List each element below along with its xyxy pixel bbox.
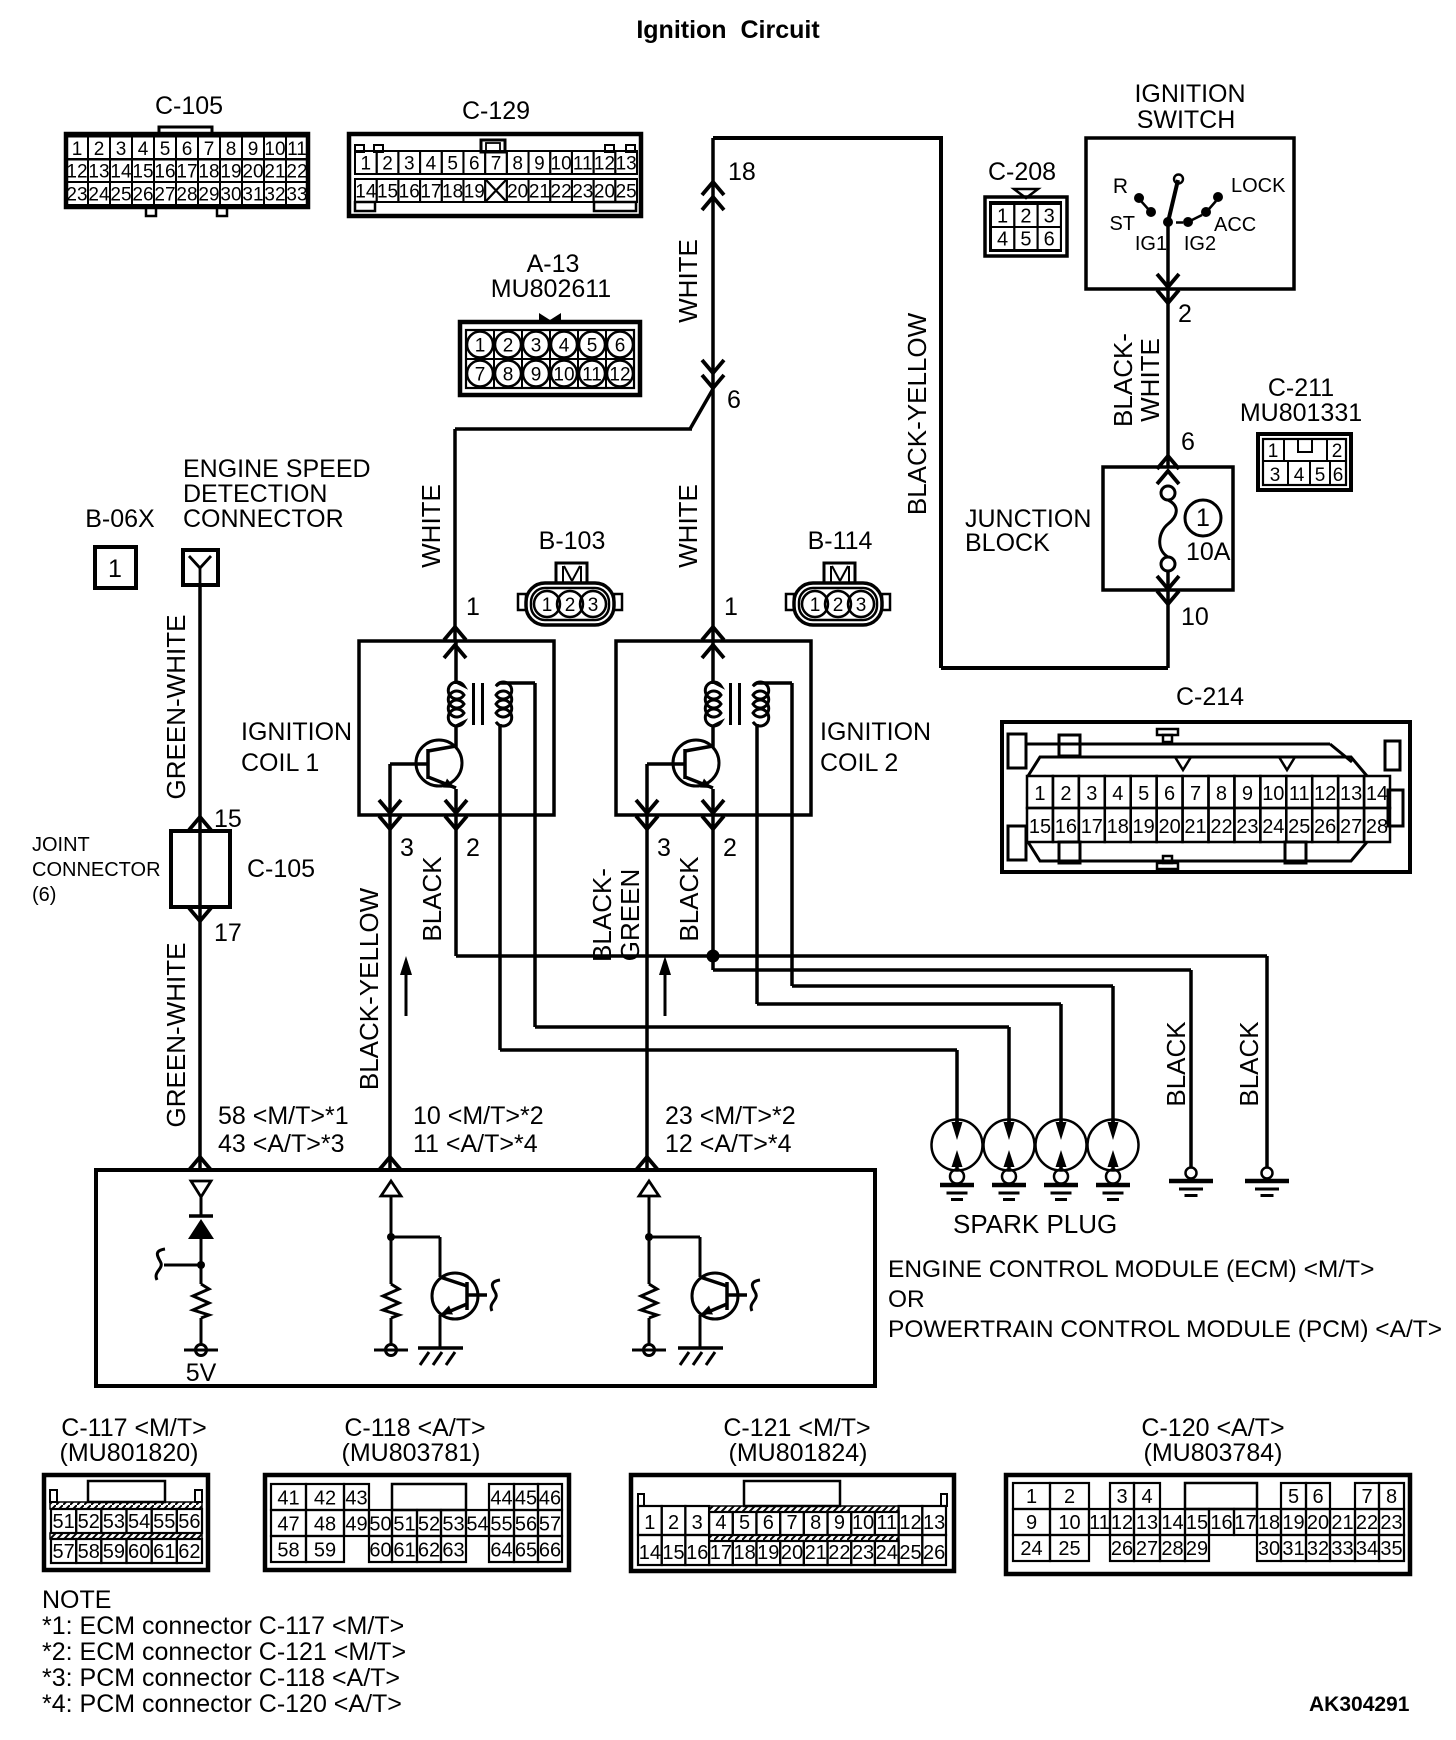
ECM box xyxy=(96,1170,875,1386)
svg-text:6: 6 xyxy=(182,139,193,160)
svg-text:12: 12 xyxy=(609,365,630,386)
svg-text:WHITE: WHITE xyxy=(1135,338,1165,422)
svg-text:7: 7 xyxy=(1361,1486,1372,1508)
svg-text:2: 2 xyxy=(1060,783,1071,805)
svg-text:53: 53 xyxy=(442,1514,464,1536)
ignition switch xyxy=(1086,80,1294,289)
svg-text:12: 12 xyxy=(1314,783,1336,805)
svg-text:16: 16 xyxy=(686,1542,708,1564)
svg-text:5: 5 xyxy=(1020,229,1031,251)
svg-text:4: 4 xyxy=(426,154,437,175)
svg-text:4: 4 xyxy=(997,229,1008,251)
svg-text:ENGINE SPEED: ENGINE SPEED xyxy=(183,455,371,483)
svg-text:61: 61 xyxy=(393,1540,415,1562)
connector C-105 (33-pin) xyxy=(66,92,308,216)
svg-text:13: 13 xyxy=(1340,783,1362,805)
svg-text:13: 13 xyxy=(1136,1512,1158,1534)
svg-text:25: 25 xyxy=(1058,1538,1080,1560)
svg-text:1: 1 xyxy=(1196,504,1210,532)
svg-text:5: 5 xyxy=(447,154,458,175)
svg-text:26: 26 xyxy=(1111,1538,1133,1560)
svg-text:DETECTION: DETECTION xyxy=(183,480,327,508)
svg-text:1: 1 xyxy=(361,154,372,175)
svg-text:3: 3 xyxy=(856,595,867,616)
svg-text:54: 54 xyxy=(128,1511,150,1533)
svg-text:31: 31 xyxy=(1282,1538,1304,1560)
wire: junction block pin 10 down xyxy=(1157,571,1209,668)
svg-text:5: 5 xyxy=(739,1512,750,1534)
ECM driver circuit 1: resistor R2, transistor Q3 xyxy=(374,1181,500,1365)
svg-text:21: 21 xyxy=(529,182,550,203)
svg-text:2: 2 xyxy=(1064,1486,1075,1508)
ECM pin label 10/11 xyxy=(413,1102,544,1158)
wire: coil 1 secondary to spark plug 1 xyxy=(500,724,957,1131)
svg-text:10A: 10A xyxy=(1186,538,1231,566)
svg-text:15: 15 xyxy=(214,805,242,833)
svg-text:6: 6 xyxy=(1312,1486,1323,1508)
svg-text:6: 6 xyxy=(615,336,626,357)
svg-text:BLACK: BLACK xyxy=(1161,1021,1191,1107)
svg-text:B-06X: B-06X xyxy=(85,505,155,533)
svg-text:6: 6 xyxy=(763,1512,774,1534)
svg-text:C-121 <M/T>: C-121 <M/T> xyxy=(723,1414,870,1442)
svg-text:8: 8 xyxy=(503,365,514,386)
svg-text:6: 6 xyxy=(1164,783,1175,805)
svg-text:32: 32 xyxy=(264,185,285,206)
svg-text:23: 23 xyxy=(852,1542,874,1564)
engine speed detection connector xyxy=(183,455,371,585)
wire BLACK: coil 2 pin 2 to ground xyxy=(674,843,1213,1196)
svg-text:CONNECTOR: CONNECTOR xyxy=(32,859,161,881)
svg-text:18: 18 xyxy=(1258,1512,1280,1534)
svg-text:(MU803781): (MU803781) xyxy=(342,1439,481,1467)
svg-text:C-118 <A/T>: C-118 <A/T> xyxy=(344,1414,485,1442)
svg-text:23: 23 xyxy=(1236,816,1258,838)
label SPARK PLUG xyxy=(953,1209,1117,1239)
svg-text:48: 48 xyxy=(314,1514,336,1536)
svg-text:7: 7 xyxy=(475,365,486,386)
svg-text:28: 28 xyxy=(1161,1538,1183,1560)
svg-text:25: 25 xyxy=(110,185,131,206)
svg-text:18: 18 xyxy=(198,162,219,183)
svg-text:(6): (6) xyxy=(32,884,56,906)
svg-text:2: 2 xyxy=(382,154,393,175)
svg-text:BLACK-: BLACK- xyxy=(1108,333,1138,427)
svg-text:19: 19 xyxy=(757,1542,779,1564)
svg-text:18: 18 xyxy=(733,1542,755,1564)
svg-text:1: 1 xyxy=(644,1512,655,1534)
svg-text:12 <A/T>*4: 12 <A/T>*4 xyxy=(665,1130,792,1158)
svg-text:7: 7 xyxy=(204,139,215,160)
svg-text:52: 52 xyxy=(78,1511,100,1533)
svg-text:19: 19 xyxy=(1133,816,1155,838)
wire: coil 1 secondary (top) to spark plug 2 xyxy=(535,683,1009,1131)
svg-text:23: 23 xyxy=(572,182,593,203)
svg-text:5: 5 xyxy=(1138,783,1149,805)
svg-text:34: 34 xyxy=(1356,1538,1378,1560)
svg-text:12: 12 xyxy=(899,1512,921,1534)
svg-text:52: 52 xyxy=(418,1514,440,1536)
svg-text:2: 2 xyxy=(1178,300,1192,328)
spark plug 4 with ground xyxy=(1088,1120,1139,1200)
connector C-129 (25-pin) xyxy=(349,97,641,216)
svg-text:8: 8 xyxy=(810,1512,821,1534)
svg-text:4: 4 xyxy=(1294,465,1305,486)
svg-text:46: 46 xyxy=(539,1488,561,1510)
svg-text:23 <M/T>*2: 23 <M/T>*2 xyxy=(665,1102,796,1130)
svg-text:20: 20 xyxy=(594,182,615,203)
svg-text:18: 18 xyxy=(442,182,463,203)
ignition coil 2 (with transistor Q2 and transformer T2) xyxy=(616,641,931,862)
svg-text:56: 56 xyxy=(515,1514,537,1536)
svg-text:10: 10 xyxy=(852,1512,874,1534)
svg-text:47: 47 xyxy=(277,1514,299,1536)
svg-text:(MU803784): (MU803784) xyxy=(1144,1439,1283,1467)
svg-text:25: 25 xyxy=(1288,816,1310,838)
svg-text:10: 10 xyxy=(551,154,572,175)
svg-text:26: 26 xyxy=(923,1542,945,1564)
svg-text:57: 57 xyxy=(52,1541,74,1563)
svg-text:11: 11 xyxy=(1089,1512,1110,1534)
svg-text:7: 7 xyxy=(1190,783,1201,805)
svg-text:57: 57 xyxy=(539,1514,561,1536)
svg-text:C-105: C-105 xyxy=(155,92,223,120)
wire WHITE: branch to ignition coil 1 pin 1 xyxy=(416,389,713,658)
svg-text:11: 11 xyxy=(573,154,593,175)
svg-text:16: 16 xyxy=(399,182,420,203)
note block xyxy=(42,1586,406,1718)
svg-text:15: 15 xyxy=(1186,1512,1208,1534)
svg-text:33: 33 xyxy=(286,185,307,206)
svg-text:10: 10 xyxy=(1262,783,1284,805)
svg-text:ACC: ACC xyxy=(1214,214,1256,236)
svg-text:1: 1 xyxy=(108,555,122,583)
svg-text:2: 2 xyxy=(833,595,844,616)
svg-text:11 <A/T>*4: 11 <A/T>*4 xyxy=(413,1130,538,1158)
svg-text:C-208: C-208 xyxy=(988,158,1056,186)
svg-text:3: 3 xyxy=(1116,1486,1127,1508)
svg-text:14: 14 xyxy=(1366,783,1388,805)
svg-text:5: 5 xyxy=(1315,465,1326,486)
svg-text:49: 49 xyxy=(345,1514,367,1536)
svg-text:30: 30 xyxy=(220,185,241,206)
svg-text:60: 60 xyxy=(369,1540,391,1562)
svg-text:9: 9 xyxy=(834,1512,845,1534)
connector A-13 MU802611 (12-pin) xyxy=(460,250,640,395)
svg-text:4: 4 xyxy=(1141,1486,1152,1508)
ECM driver circuit 2: resistor R3, transistor Q4 xyxy=(632,1181,760,1365)
fuse 1 (10A) in junction block xyxy=(1160,486,1231,571)
svg-text:JOINT: JOINT xyxy=(32,834,90,856)
connector C-121 MU801824 xyxy=(631,1414,954,1571)
svg-text:6: 6 xyxy=(469,154,480,175)
svg-text:1: 1 xyxy=(72,139,83,160)
svg-text:26: 26 xyxy=(1314,816,1336,838)
svg-text:17: 17 xyxy=(710,1542,732,1564)
ignition coil 1 (with transistor Q1 and transformer T1) xyxy=(241,641,554,862)
connector C-117 MU801820 xyxy=(44,1414,208,1570)
svg-text:14: 14 xyxy=(110,162,132,183)
svg-text:CONNECTOR: CONNECTOR xyxy=(183,505,344,533)
svg-text:20: 20 xyxy=(242,162,263,183)
wire BLACK: coil 1 pin 2 to ground (junction with coil 2 black) xyxy=(417,843,1289,1196)
svg-text:2: 2 xyxy=(668,1512,679,1534)
svg-text:1: 1 xyxy=(1268,441,1279,462)
wire WHITE: pin 18 feed down to ignition coil 2 pin 1 xyxy=(673,138,756,658)
svg-text:2: 2 xyxy=(94,139,105,160)
svg-text:65: 65 xyxy=(515,1540,537,1562)
svg-text:ST: ST xyxy=(1109,213,1135,235)
svg-text:6: 6 xyxy=(727,386,741,414)
svg-text:2: 2 xyxy=(565,595,576,616)
svg-text:64: 64 xyxy=(490,1540,512,1562)
svg-text:45: 45 xyxy=(515,1488,537,1510)
svg-text:41: 41 xyxy=(277,1488,299,1510)
svg-text:28: 28 xyxy=(1366,816,1388,838)
connector C-211 MU801331 (6-pin) xyxy=(1240,374,1362,490)
connector C-214 (28-pin) xyxy=(1002,683,1410,872)
svg-text:53: 53 xyxy=(103,1511,125,1533)
svg-text:15: 15 xyxy=(662,1542,684,1564)
svg-text:3: 3 xyxy=(400,834,414,862)
svg-text:21: 21 xyxy=(1184,816,1206,838)
svg-text:14: 14 xyxy=(639,1542,661,1564)
svg-text:BLACK-YELLOW: BLACK-YELLOW xyxy=(354,887,384,1090)
svg-text:23: 23 xyxy=(1380,1512,1402,1534)
svg-text:1: 1 xyxy=(1034,783,1045,805)
spark plug 1 with ground xyxy=(932,1120,983,1200)
svg-text:29: 29 xyxy=(1186,1538,1208,1560)
svg-text:C-120 <A/T>: C-120 <A/T> xyxy=(1141,1414,1284,1442)
svg-text:*1: ECM connector C-117 <M/T>: *1: ECM connector C-117 <M/T> xyxy=(42,1612,404,1640)
svg-text:13: 13 xyxy=(88,162,109,183)
svg-text:19: 19 xyxy=(220,162,241,183)
svg-text:OR: OR xyxy=(888,1286,925,1313)
svg-text:61: 61 xyxy=(153,1541,175,1563)
svg-text:11: 11 xyxy=(876,1512,897,1534)
svg-text:8: 8 xyxy=(226,139,237,160)
svg-text:21: 21 xyxy=(805,1542,827,1564)
ECM input circuit: diode D1, resistor R1, 5V pull-up xyxy=(156,1181,218,1387)
svg-text:2: 2 xyxy=(723,834,737,862)
svg-text:1: 1 xyxy=(542,595,553,616)
svg-text:9: 9 xyxy=(534,154,545,175)
svg-text:12: 12 xyxy=(594,154,615,175)
svg-text:10: 10 xyxy=(1058,1512,1080,1534)
svg-text:16: 16 xyxy=(154,162,175,183)
connector C-208 (6-pin) xyxy=(985,158,1067,256)
svg-text:11: 11 xyxy=(1289,783,1310,805)
svg-text:GREEN-WHITE: GREEN-WHITE xyxy=(161,615,191,800)
svg-text:66: 66 xyxy=(539,1540,561,1562)
svg-text:9: 9 xyxy=(531,365,542,386)
svg-text:10: 10 xyxy=(1181,603,1209,631)
svg-text:2: 2 xyxy=(1332,441,1343,462)
connector C-118 MU803781 xyxy=(265,1414,569,1570)
svg-text:4: 4 xyxy=(138,139,149,160)
svg-text:23: 23 xyxy=(66,185,87,206)
svg-text:1: 1 xyxy=(724,593,738,621)
svg-text:33: 33 xyxy=(1331,1538,1353,1560)
svg-text:12: 12 xyxy=(1111,1512,1133,1534)
svg-text:24: 24 xyxy=(88,185,110,206)
svg-text:B-114: B-114 xyxy=(808,527,873,555)
svg-text:6: 6 xyxy=(1044,229,1055,251)
svg-text:28: 28 xyxy=(176,185,197,206)
svg-text:IG1: IG1 xyxy=(1135,233,1167,255)
svg-text:MU802611: MU802611 xyxy=(491,275,611,303)
wire: coil 2 secondary to spark plug 3 xyxy=(757,724,1061,1131)
svg-text:22: 22 xyxy=(1356,1512,1378,1534)
svg-text:BLACK: BLACK xyxy=(674,856,704,942)
svg-text:BLACK: BLACK xyxy=(1234,1021,1264,1107)
svg-text:3: 3 xyxy=(1086,783,1097,805)
svg-text:20: 20 xyxy=(1158,816,1180,838)
svg-text:(MU801824): (MU801824) xyxy=(729,1439,868,1467)
svg-text:25: 25 xyxy=(899,1542,921,1564)
svg-text:51: 51 xyxy=(52,1511,74,1533)
svg-text:*3: PCM connector C-118 <A/T>: *3: PCM connector C-118 <A/T> xyxy=(42,1664,400,1692)
svg-text:SWITCH: SWITCH xyxy=(1137,106,1236,134)
svg-text:58: 58 xyxy=(78,1541,100,1563)
svg-text:A-13: A-13 xyxy=(527,250,580,278)
svg-text:10 <M/T>*2: 10 <M/T>*2 xyxy=(413,1102,544,1130)
svg-text:C-129: C-129 xyxy=(462,97,530,125)
title: Ignition Circuit xyxy=(636,16,820,44)
spark plug 3 with ground xyxy=(1036,1120,1087,1200)
svg-text:1: 1 xyxy=(466,593,480,621)
svg-text:43: 43 xyxy=(345,1488,367,1510)
svg-text:8: 8 xyxy=(1386,1486,1397,1508)
svg-text:22: 22 xyxy=(1210,816,1232,838)
svg-text:C-105: C-105 xyxy=(247,855,315,883)
svg-text:5: 5 xyxy=(160,139,171,160)
svg-text:16: 16 xyxy=(1055,816,1077,838)
svg-text:*4: PCM connector C-120 <A/T>: *4: PCM connector C-120 <A/T> xyxy=(42,1690,402,1718)
svg-text:WHITE: WHITE xyxy=(673,484,703,568)
svg-text:POWERTRAIN CONTROL MODULE (PCM: POWERTRAIN CONTROL MODULE (PCM) <A/T> xyxy=(888,1316,1442,1343)
svg-text:*2: ECM connector C-121 <M/T>: *2: ECM connector C-121 <M/T> xyxy=(42,1638,406,1666)
svg-text:24: 24 xyxy=(876,1542,898,1564)
svg-text:COIL 1: COIL 1 xyxy=(241,749,319,777)
svg-text:27: 27 xyxy=(1340,816,1362,838)
svg-text:22: 22 xyxy=(551,182,572,203)
connector B-103 (3-pin) xyxy=(518,527,622,625)
svg-text:NOTE: NOTE xyxy=(42,1586,111,1614)
svg-text:9: 9 xyxy=(248,139,259,160)
svg-text:13: 13 xyxy=(923,1512,945,1534)
svg-text:COIL 2: COIL 2 xyxy=(820,749,898,777)
svg-text:8: 8 xyxy=(512,154,523,175)
connector B-114 (3-pin) xyxy=(786,527,890,625)
joint connector (6) C-105 xyxy=(32,831,315,907)
svg-text:62: 62 xyxy=(418,1540,440,1562)
svg-text:11: 11 xyxy=(582,365,602,386)
svg-text:(MU801820): (MU801820) xyxy=(60,1439,199,1467)
svg-text:43 <A/T>*3: 43 <A/T>*3 xyxy=(218,1130,344,1158)
svg-text:55: 55 xyxy=(490,1514,512,1536)
svg-text:59: 59 xyxy=(103,1541,125,1563)
svg-text:27: 27 xyxy=(1136,1538,1158,1560)
svg-text:55: 55 xyxy=(153,1511,175,1533)
svg-text:18: 18 xyxy=(1107,816,1129,838)
svg-text:10: 10 xyxy=(264,139,285,160)
svg-text:25: 25 xyxy=(616,182,637,203)
svg-text:21: 21 xyxy=(264,162,285,183)
connector B-06X xyxy=(85,505,155,588)
svg-text:BLOCK: BLOCK xyxy=(965,529,1050,557)
svg-text:IGNITION: IGNITION xyxy=(241,718,352,746)
svg-text:B-103: B-103 xyxy=(539,527,606,555)
svg-text:17: 17 xyxy=(214,919,242,947)
svg-text:17: 17 xyxy=(1081,816,1103,838)
svg-text:16: 16 xyxy=(1210,1512,1232,1534)
svg-text:3: 3 xyxy=(404,154,415,175)
svg-text:9: 9 xyxy=(1026,1512,1037,1534)
svg-text:22: 22 xyxy=(828,1542,850,1564)
label ECM/PCM xyxy=(888,1256,1442,1343)
svg-text:GREEN-WHITE: GREEN-WHITE xyxy=(161,943,191,1128)
svg-text:17: 17 xyxy=(176,162,197,183)
svg-text:20: 20 xyxy=(1307,1512,1329,1534)
svg-text:21: 21 xyxy=(1331,1512,1353,1534)
svg-text:13: 13 xyxy=(616,154,637,175)
junction block box xyxy=(965,467,1233,590)
svg-text:3: 3 xyxy=(1270,465,1281,486)
wire: coil 2 secondary (top) to spark plug 4 xyxy=(792,683,1113,1131)
svg-text:15: 15 xyxy=(132,162,153,183)
svg-text:C-214: C-214 xyxy=(1176,683,1244,711)
svg-text:C-211: C-211 xyxy=(1268,374,1334,402)
svg-text:SPARK PLUG: SPARK PLUG xyxy=(953,1209,1117,1239)
svg-text:7: 7 xyxy=(786,1512,797,1534)
svg-text:19: 19 xyxy=(464,182,485,203)
svg-text:2: 2 xyxy=(503,336,514,357)
svg-text:MU801331: MU801331 xyxy=(1240,399,1362,427)
svg-text:35: 35 xyxy=(1380,1538,1402,1560)
svg-text:24: 24 xyxy=(1020,1538,1042,1560)
svg-text:BLACK-YELLOW: BLACK-YELLOW xyxy=(902,312,932,515)
svg-text:7: 7 xyxy=(491,154,502,175)
svg-text:11: 11 xyxy=(287,139,307,160)
svg-text:5: 5 xyxy=(587,336,598,357)
svg-text:12: 12 xyxy=(66,162,87,183)
svg-text:14: 14 xyxy=(1161,1512,1183,1534)
svg-text:24: 24 xyxy=(1262,816,1284,838)
svg-text:19: 19 xyxy=(1282,1512,1304,1534)
ECM pin label 58/43 xyxy=(218,1102,349,1158)
svg-text:58 <M/T>*1: 58 <M/T>*1 xyxy=(218,1102,349,1130)
svg-text:4: 4 xyxy=(559,336,570,357)
svg-text:18: 18 xyxy=(728,158,756,186)
drawing number AK304291 xyxy=(1309,1693,1410,1716)
svg-text:6: 6 xyxy=(1181,428,1195,456)
svg-text:ENGINE CONTROL MODULE (ECM) <M: ENGINE CONTROL MODULE (ECM) <M/T> xyxy=(888,1256,1374,1283)
wire BLACK-WHITE: ignition switch IG1 pin 2 to junction block pin 6 xyxy=(1108,222,1195,484)
svg-text:WHITE: WHITE xyxy=(673,239,703,323)
svg-text:2: 2 xyxy=(1020,206,1031,228)
svg-text:62: 62 xyxy=(178,1541,200,1563)
svg-text:6: 6 xyxy=(1333,465,1344,486)
svg-text:10: 10 xyxy=(553,365,574,386)
svg-text:1: 1 xyxy=(997,206,1008,228)
svg-text:1: 1 xyxy=(810,595,821,616)
svg-text:4: 4 xyxy=(715,1512,726,1534)
svg-text:17: 17 xyxy=(420,182,441,203)
svg-text:C-117 <M/T>: C-117 <M/T> xyxy=(61,1414,206,1442)
wire GREEN-WHITE: engine speed connector to joint connector xyxy=(161,585,242,1168)
svg-text:3: 3 xyxy=(531,336,542,357)
